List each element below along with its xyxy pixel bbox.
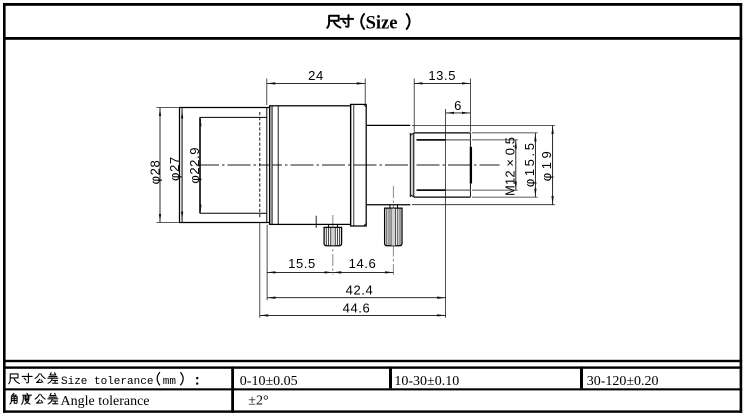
svg-text:13.5: 13.5	[428, 68, 456, 83]
svg-text:M12 × 0.5: M12 × 0.5	[502, 137, 517, 196]
svg-text:10-30±0.10: 10-30±0.10	[394, 374, 459, 389]
svg-text:15.5: 15.5	[288, 256, 316, 271]
svg-text:30-120±0.20: 30-120±0.20	[587, 374, 659, 389]
svg-text:24: 24	[308, 68, 324, 83]
svg-text:Angle tolerance: Angle tolerance	[61, 394, 150, 409]
svg-text:mm: mm	[163, 376, 177, 388]
svg-text:±2°: ±2°	[248, 394, 268, 409]
svg-text:Size tolerance: Size tolerance	[61, 376, 153, 388]
svg-text:0-10±0.05: 0-10±0.05	[240, 374, 298, 389]
svg-text:44.6: 44.6	[343, 300, 371, 315]
svg-text:φ19: φ19	[539, 148, 554, 181]
svg-text:14.6: 14.6	[349, 256, 377, 271]
svg-text:Size: Size	[366, 13, 398, 33]
svg-text:φ15.5: φ15.5	[522, 140, 537, 187]
svg-text:6: 6	[454, 98, 462, 113]
svg-text:φ22.9: φ22.9	[187, 147, 202, 184]
svg-text:42.4: 42.4	[346, 282, 374, 297]
svg-text:φ27: φ27	[167, 156, 182, 181]
svg-text:φ28: φ28	[148, 160, 163, 185]
